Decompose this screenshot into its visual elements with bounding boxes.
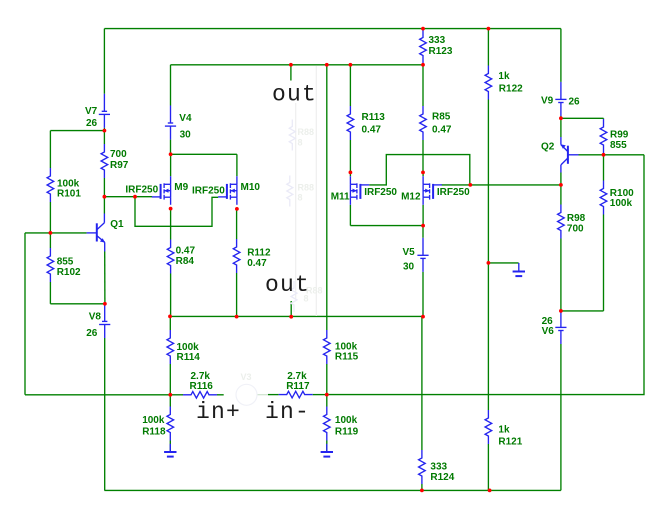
svg-text:V4: V4: [179, 113, 192, 124]
svg-text:in-: in-: [265, 399, 310, 425]
svg-text:R115: R115: [335, 352, 359, 363]
svg-text:1k: 1k: [498, 71, 510, 82]
svg-text:IRF250: IRF250: [125, 184, 158, 195]
svg-text:R122: R122: [499, 84, 523, 95]
svg-text:R121: R121: [498, 436, 522, 447]
svg-text:30: 30: [403, 261, 415, 272]
svg-text:0.47: 0.47: [432, 125, 452, 136]
svg-text:M10: M10: [241, 182, 261, 193]
svg-text:IRF250: IRF250: [364, 187, 397, 198]
svg-text:V8: V8: [89, 312, 102, 323]
svg-text:700: 700: [110, 149, 127, 160]
svg-text:855: 855: [610, 140, 627, 151]
svg-text:R85: R85: [432, 112, 451, 123]
svg-text:R118: R118: [142, 427, 166, 438]
svg-text:IRF250: IRF250: [437, 187, 470, 198]
svg-text:V7: V7: [85, 106, 98, 117]
svg-text:R124: R124: [430, 472, 454, 483]
svg-text:26: 26: [569, 97, 581, 108]
svg-text:R88: R88: [298, 183, 315, 193]
svg-text:R102: R102: [57, 267, 81, 278]
svg-text:M9: M9: [174, 182, 188, 193]
svg-text:100k: 100k: [335, 415, 358, 426]
svg-text:V6: V6: [542, 326, 555, 337]
svg-text:R88: R88: [298, 127, 315, 137]
svg-text:R113: R113: [362, 112, 386, 123]
svg-text:R99: R99: [610, 129, 629, 140]
svg-text:26: 26: [86, 328, 98, 339]
svg-text:V5: V5: [403, 247, 416, 258]
svg-text:R101: R101: [57, 189, 81, 200]
svg-text:Q1: Q1: [110, 219, 124, 230]
svg-text:R119: R119: [335, 427, 359, 438]
svg-text:26: 26: [542, 316, 554, 327]
svg-text:R98: R98: [567, 213, 586, 224]
svg-text:8: 8: [298, 193, 303, 203]
svg-text:8: 8: [298, 138, 303, 148]
svg-text:out: out: [265, 272, 310, 298]
svg-text:333: 333: [429, 35, 446, 46]
svg-text:R123: R123: [429, 46, 453, 57]
svg-text:700: 700: [567, 223, 584, 234]
svg-text:in+: in+: [196, 399, 241, 425]
svg-text:333: 333: [430, 462, 447, 473]
svg-text:Q2: Q2: [541, 142, 555, 153]
svg-text:R116: R116: [190, 381, 214, 392]
svg-text:IRF250: IRF250: [192, 186, 225, 197]
svg-text:0.47: 0.47: [176, 245, 196, 256]
svg-text:R117: R117: [286, 381, 310, 392]
svg-text:V3: V3: [241, 372, 252, 382]
svg-text:R114: R114: [177, 352, 201, 363]
svg-text:V9: V9: [541, 96, 554, 107]
svg-text:100k: 100k: [610, 198, 633, 209]
svg-text:M12: M12: [401, 191, 421, 202]
svg-text:R84: R84: [176, 256, 195, 267]
svg-text:30: 30: [180, 130, 192, 141]
svg-text:0.47: 0.47: [362, 125, 382, 136]
svg-text:out: out: [272, 81, 317, 107]
svg-text:R97: R97: [110, 160, 129, 171]
svg-text:26: 26: [86, 118, 98, 129]
svg-text:100k: 100k: [142, 415, 165, 426]
svg-text:0.47: 0.47: [247, 258, 267, 269]
svg-text:1k: 1k: [498, 424, 510, 435]
svg-text:M11: M11: [331, 191, 350, 202]
